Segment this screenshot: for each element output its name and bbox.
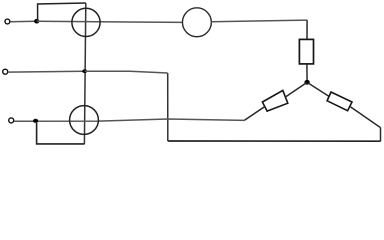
resistor R2 (left diagonal) [262, 90, 287, 111]
wire bottom row: terminal T3 through W2 to bend [14, 119, 244, 121]
wire R1 bottom lead to star node [306, 64, 308, 82]
wire middle row: junction to corner [85, 71, 168, 73]
wire voltage-coil line (vertical through W1, mid junction, W2) [84, 3, 85, 144]
wattmeter W1 circle [72, 8, 100, 36]
wire right edge vertical [380, 128, 382, 142]
terminal T1 (line A, top left) [5, 19, 10, 24]
wire R3 to bottom-right corner [350, 106, 381, 127]
wire top-right corner drop to R1 [306, 20, 308, 39]
wire jumper of wattmeter W2 (voltage coil tap) [37, 122, 85, 144]
terminal T2 (line B, middle left) [3, 69, 8, 74]
wire star node to resistor R3 (right branch) [308, 83, 329, 97]
wire star node to resistor R2 (left branch) [286, 83, 307, 97]
wattmeter W2 circle [70, 106, 99, 135]
wire middle-row vertical drop [167, 73, 169, 141]
wire top row: circle A to top-right corner [211, 20, 307, 22]
wire middle row: terminal T2 to junction [8, 70, 85, 73]
terminal T3 (line C, bottom left) [9, 118, 14, 123]
node star point dot [304, 80, 309, 85]
wire R2 to bottom-row bend [244, 107, 264, 121]
wire jumper of wattmeter W1 (voltage coil tap) [38, 3, 86, 21]
node bottom junction dot [33, 119, 38, 123]
resistor R3 (right diagonal) [327, 92, 352, 111]
wire bottom return line [168, 140, 381, 142]
meter A1 (series circle, top middle) [182, 8, 211, 37]
resistor R1 (vertical, right) [299, 39, 313, 64]
wire top row: terminal T1 to junction [10, 20, 37, 22]
node middle junction dot [82, 69, 87, 73]
wire top row: junction through W1 to circle A [37, 21, 183, 22]
node top junction dot [34, 19, 39, 24]
